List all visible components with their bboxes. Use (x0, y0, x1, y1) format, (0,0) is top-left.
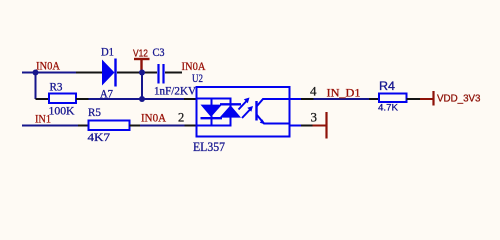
svg-text:D1: D1 (101, 45, 114, 59)
svg-text:R3: R3 (50, 80, 63, 94)
U2 LED 1 cathode bar (201, 117, 223, 119)
wire row A left stub (22, 72, 76, 74)
U2 emission arrow 1 (239, 98, 250, 110)
U2 internal bottom rail (198, 125, 232, 127)
svg-text:IN_D1: IN_D1 (327, 86, 361, 100)
diode D1 cathode pin / wire to junction (117, 72, 157, 74)
svg-text:1nF/2KV: 1nF/2KV (154, 84, 196, 98)
capacitor C3 right pin / wire end (165, 72, 182, 74)
svg-text:IN1: IN1 (35, 112, 51, 126)
resistor R4 (379, 94, 407, 103)
resistor R3 (49, 94, 76, 104)
resistor R5 (89, 121, 130, 131)
svg-text:4.7K: 4.7K (378, 103, 398, 113)
U2 internal top rail (198, 98, 232, 100)
svg-text:IN0A: IN0A (141, 111, 166, 125)
svg-text:V12: V12 (133, 48, 148, 60)
svg-text:3: 3 (311, 110, 318, 125)
svg-text:EL357: EL357 (193, 139, 225, 154)
U2 pin 1 (184, 98, 197, 100)
wire row B to U2 pin1 (89, 98, 185, 100)
wire row C left stub (22, 125, 78, 127)
U2 LED 1 triangle (201, 105, 223, 117)
junction dot row B (139, 96, 145, 102)
wire vertical link rows A-B (141, 73, 143, 100)
U2 pin 4 (301, 98, 314, 100)
svg-text:4: 4 (310, 84, 317, 99)
power port VDD_3V3 bar (432, 91, 434, 106)
power port V12 (133, 48, 150, 71)
wire pin4 to R4 (314, 98, 370, 100)
wire row C to U2 pin2 (140, 125, 185, 127)
svg-text:C3: C3 (153, 45, 165, 59)
U2 pin 2 (185, 125, 197, 127)
power port VDD_3V3 wire (420, 98, 433, 100)
op-amp U2 optocoupler box (197, 87, 290, 137)
U2 LED 2 cathode bar (220, 103, 241, 105)
resistor R5 left pin (78, 125, 89, 127)
U2 internal vertical 1 (211, 99, 213, 126)
resistor R5 right pin (130, 125, 141, 127)
junction dot row A (139, 70, 145, 76)
svg-text:U2: U2 (192, 71, 203, 85)
diode D1 (102, 59, 116, 87)
U2 pin 3 (301, 125, 313, 127)
resistor R4 left pin (369, 98, 379, 100)
transistor collector line (257, 99, 289, 107)
capacitor C3 (159, 64, 164, 84)
transistor emitter line (257, 115, 289, 124)
power port bar at pin 3 (325, 112, 327, 139)
U2 pin 3 stub blue (290, 125, 302, 127)
transistor Q internal base bar (255, 101, 257, 121)
U2 emission arrow 2 (242, 106, 253, 118)
resistor R4 right pin (407, 98, 421, 100)
svg-text:R5: R5 (88, 105, 101, 119)
svg-text:100K: 100K (49, 104, 75, 118)
svg-text:IN0A: IN0A (36, 59, 60, 73)
U2 LED 2 triangle (220, 105, 242, 117)
svg-text:2: 2 (178, 111, 184, 125)
transistor emitter arrowhead (260, 119, 266, 124)
svg-text:VDD_3V3: VDD_3V3 (437, 94, 481, 105)
svg-text:4K7: 4K7 (88, 130, 111, 144)
wire vertical from IN0A junction down to R3 row (35, 73, 37, 100)
power port wire at pin 3 (313, 125, 327, 127)
resistor R3 left pin (36, 98, 50, 100)
resistor R3 right pin (76, 98, 89, 100)
junction dot at IN0A (33, 70, 39, 76)
U2 internal vertical 2 (230, 99, 232, 126)
U2 pin 4 stub blue (290, 98, 302, 100)
diode D1 anode pin (76, 72, 102, 74)
svg-text:R4: R4 (379, 79, 395, 93)
